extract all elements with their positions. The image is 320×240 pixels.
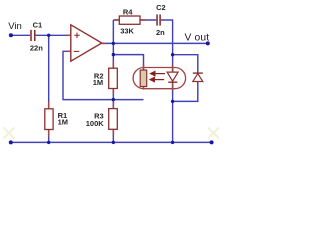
svg-text:1M: 1M [93, 78, 103, 87]
svg-text:100K: 100K [86, 119, 105, 128]
svg-text:C2: C2 [156, 3, 166, 12]
svg-text:33K: 33K [120, 27, 134, 36]
svg-text:1M: 1M [58, 117, 68, 126]
svg-text:22n: 22n [30, 44, 43, 53]
svg-text:R4: R4 [123, 8, 133, 17]
svg-text:V out: V out [185, 32, 210, 43]
svg-text:C1: C1 [33, 20, 43, 29]
svg-text:Vin: Vin [8, 21, 22, 32]
svg-text:2n: 2n [156, 28, 165, 37]
